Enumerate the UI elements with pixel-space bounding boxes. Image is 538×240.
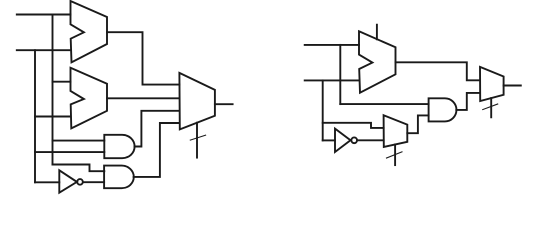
inverter U6 triangle [335,129,351,152]
wire V3 vertical from R1 [339,45,341,104]
wire branch V2 to mux U2 in2 [35,116,71,118]
mux U1 (2:1 mux with chevron) [71,1,108,62]
wire W1 input A left circuit [17,14,71,16]
wire mux U1 output to mux U3 in1 [107,32,179,84]
mux U3 (4:1 mux trapezoid) [179,73,215,129]
AND gate G1 [104,135,134,158]
wire W2 input B left circuit [17,49,71,51]
wire V2 vertical bus from W2 [34,50,36,182]
wire mux U3 output [215,103,233,105]
inverter U6 bubble [351,137,357,143]
wire mux U3 select [196,123,198,158]
mux U4 (2:1 mux with chevron) [359,31,396,92]
wire R2 input B right circuit [305,79,359,81]
inverter U5 bubble [77,179,83,185]
wire mux U8 select [490,98,492,117]
inverter U5 triangle [59,170,77,192]
bus slash on mux U7 select [387,152,403,158]
AND gate G3 [429,98,457,121]
wire mux U7 output to AND G3 in2 [407,115,428,133]
AND gate G2 [104,166,134,189]
wire R1 input A right circuit [305,44,359,46]
mux U2 (2:1 mux with chevron) [71,68,108,129]
wire mux U2 output to mux U3 in2 [107,97,179,99]
mux U7 (small trapezoid) [384,115,408,147]
wire branch V1 to AND G1 in1 [53,140,105,142]
wire inverter U6 output to mux U7 in2 [357,139,383,141]
wire AND G1 output to mux U3 in3 [135,111,180,147]
wire V2 bottom to inverter U5 input [35,181,59,183]
wire V4 bottom to inverter U6 input [323,139,335,141]
wire AND G2 output to mux U3 in4 [134,123,180,177]
wire mux U8 output [504,85,521,87]
wire mux U7 select [394,145,396,166]
wire inverter U5 output to AND G2 in2 [83,181,104,183]
bus slash on mux U8 select [483,104,498,110]
wire V1 bottom jog to AND G2 in1 [53,165,105,172]
wire V3 to AND G3 in1 [340,103,428,105]
wire branch V2 to AND G1 in2 [35,151,104,153]
wire V4 branch jog to mux U7 in1 [323,123,384,128]
wire mux U4 select stub [376,25,378,40]
wire branch V1 to mux U2 in1 [53,81,71,83]
wire V1 vertical bus from W1 [52,15,54,165]
wire AND G3 output to mux U8 in2 [456,93,480,110]
mux U8 (small trapezoid) [480,67,504,101]
wire V4 vertical from R2 [322,80,324,140]
wire mux U4 output to mux U8 in1 [396,62,481,80]
bus slash on mux U3 select [190,135,205,140]
